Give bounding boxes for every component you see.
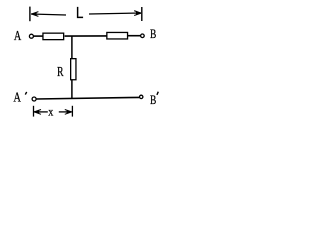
dimension tick left (x): [33, 106, 35, 117]
svg-text:A: A: [14, 28, 22, 44]
dimension tick left (L): [29, 7, 31, 22]
svg-text:A: A: [13, 89, 21, 105]
wire A' to B' (bottom rail): [36, 97, 139, 99]
resistor box left (A side): [43, 33, 64, 40]
wire between resistors (junction at x=72): [65, 35, 107, 37]
wire junction down to R: [71, 36, 73, 59]
dimension line L right segment: [89, 13, 141, 14]
dimension tick right (x): [71, 106, 73, 117]
resistor box right (B side): [107, 32, 128, 39]
resistor R (vertical box): [71, 59, 76, 80]
prime mark of A': [25, 92, 26, 95]
terminal B': [140, 95, 143, 98]
svg-text:x: x: [48, 106, 53, 119]
wire R down to bottom rail: [71, 80, 73, 99]
dimension arrowhead left (L): [32, 12, 37, 15]
terminal A: [29, 34, 33, 38]
svg-text:L: L: [76, 5, 84, 22]
svg-text:B: B: [150, 94, 157, 108]
terminal B: [141, 34, 145, 38]
terminal A': [32, 97, 36, 101]
dimension line x left segment: [34, 111, 48, 113]
dimension arrowhead right (L): [136, 11, 141, 14]
dimension arrowhead right (x): [67, 110, 72, 113]
wire A to left resistor: [34, 35, 43, 37]
circuit schematic: slide-wire resistance figure: [0, 0, 169, 131]
dimension tick right (L): [141, 7, 143, 21]
prime mark of B': [157, 92, 158, 95]
dimension line x right segment: [59, 111, 72, 113]
dimension arrowhead left (x): [34, 110, 39, 113]
dimension line L left segment: [31, 14, 66, 15]
svg-text:B: B: [150, 28, 157, 42]
wire right resistor to B: [128, 35, 141, 37]
svg-text:R: R: [57, 63, 64, 79]
